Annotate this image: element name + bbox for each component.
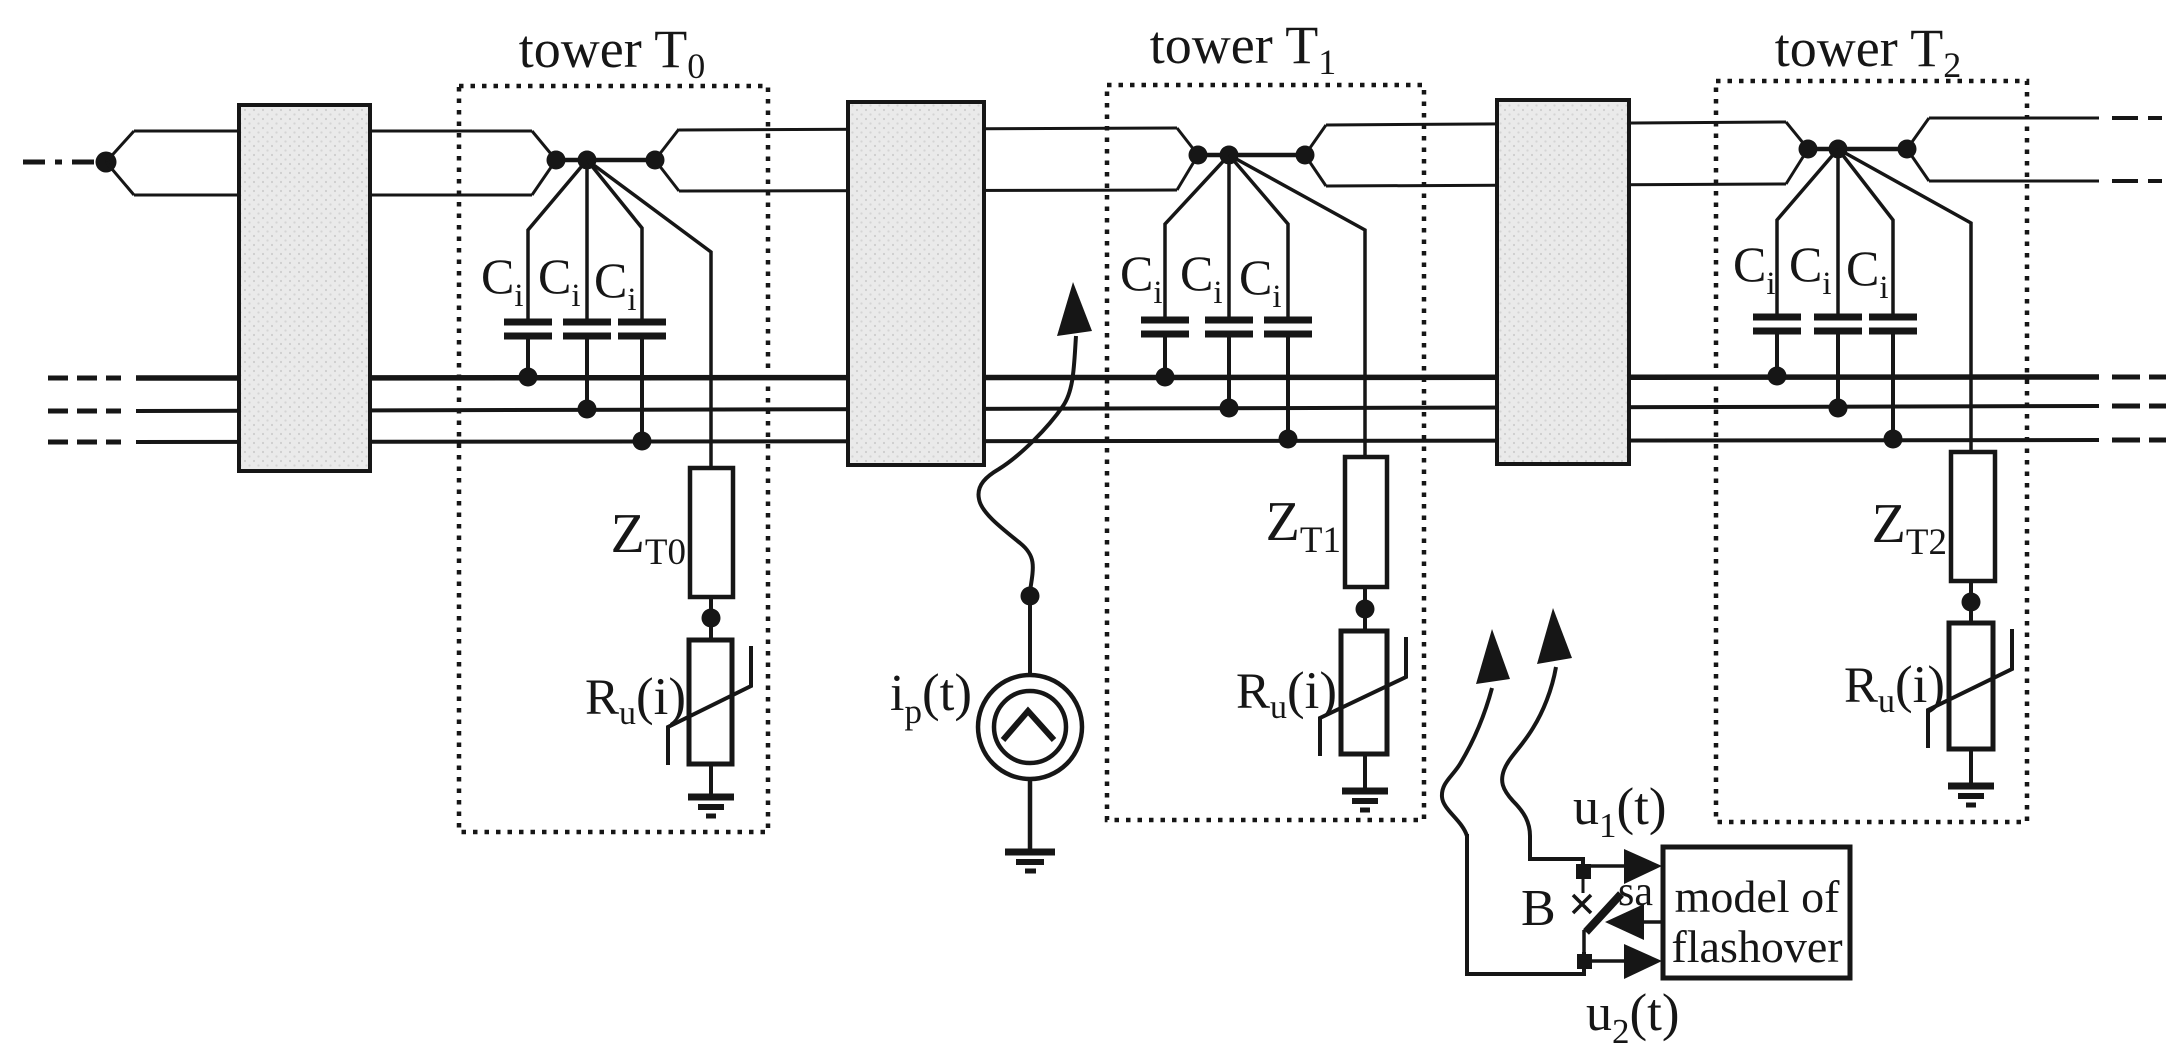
wire shield right dashed stub upper <box>2112 116 2162 120</box>
svg-text:u2(t): u2(t) <box>1586 984 1680 1051</box>
node lower sense junction <box>1577 954 1592 969</box>
capacitor C2 (Ci) of tower T1 <box>1205 155 1253 418</box>
node tower T2 base junction <box>1962 593 1981 612</box>
tower surge impedance Z_T1 <box>1345 457 1387 587</box>
wire tower T2 leg to surge impedance <box>1838 149 1971 452</box>
svg-text:flashover: flashover <box>1671 921 1842 972</box>
node tower T1 top junction <box>1220 146 1239 165</box>
tower surge impedance Z_T2 <box>1951 452 1995 581</box>
wavy arrow u2 (voltage at point B lower) <box>1502 667 1556 856</box>
line span block 1 (distributed line model) <box>239 105 370 471</box>
line span block 3 (distributed line model) <box>1497 100 1629 464</box>
wire junction to spark gap <box>1582 879 1585 893</box>
wire Z_T2 to footing resistance <box>1969 581 1973 623</box>
node tower T1 left junction <box>1189 146 1208 165</box>
tower T0 dotted boundary box <box>459 86 768 832</box>
wire phase conductor 2 <box>136 406 2099 411</box>
svg-text:sa: sa <box>1618 869 1653 915</box>
wire tower T1 leg to surge impedance <box>1229 155 1365 457</box>
line span block 2 (distributed line model) <box>848 102 984 465</box>
svg-text:ip(t): ip(t) <box>890 664 972 731</box>
model of flashover block <box>1663 847 1850 978</box>
switch sa blade <box>1586 894 1621 932</box>
wire tower T0 leg to surge impedance <box>587 160 711 468</box>
wire u1 sense lead (top run) <box>1530 854 1583 866</box>
node tower T2 right junction <box>1898 140 1917 159</box>
wire phase conductor 1 right dashes <box>2112 375 2166 380</box>
tower T1 top crossarm wire <box>1198 153 1305 158</box>
wire Z_T1 to footing resistance <box>1363 587 1367 631</box>
node tower T2 top junction <box>1829 140 1848 159</box>
wire phase conductor 3 right dashes <box>2112 438 2166 443</box>
wire phase conductor 2 right dashes <box>2112 404 2166 409</box>
ground tower T0 <box>688 764 734 816</box>
capacitor C3 (Ci) of tower T2 <box>1838 149 1917 449</box>
wire phase conductor 3 <box>136 440 2099 442</box>
capacitor C3 (Ci) of tower T1 <box>1229 155 1312 449</box>
node upper sense junction <box>1576 864 1591 879</box>
arrow control from flashover block to switch sa <box>1642 920 1663 924</box>
ground tower T1 <box>1342 754 1388 810</box>
wire shield-to-tower left diagonal <box>532 131 556 160</box>
wire u2 sense lead (left vertical + bottom run) <box>1467 834 1584 974</box>
svg-text:tower T2: tower T2 <box>1775 18 1961 85</box>
svg-text:B: B <box>1521 880 1556 937</box>
capacitor C1 (Ci) of tower T1 <box>1141 155 1229 387</box>
node tower T0 base junction <box>702 609 721 628</box>
nonlinear resistor R_u(i) footing resistance of tower T2 <box>1928 623 2012 749</box>
ground of current source <box>1005 849 1055 856</box>
node tower T1 base junction <box>1356 600 1375 619</box>
svg-text:Ru(i): Ru(i) <box>1236 662 1337 726</box>
ground tower T2 <box>1948 749 1994 805</box>
wire shield left dash-dot stub <box>23 160 97 165</box>
node tower T0 top junction <box>578 151 597 170</box>
capacitor C3 (Ci) of tower T0 <box>587 160 666 451</box>
svg-text:tower T0: tower T0 <box>519 19 705 86</box>
arrow u2 into flashover block <box>1584 959 1630 963</box>
capacitor C2 (Ci) of tower T0 <box>563 160 611 419</box>
node injection point <box>1021 587 1040 606</box>
wire shield ground-wire upper span <box>134 130 532 133</box>
node shield left junction <box>96 152 117 173</box>
tower T0 top crossarm wire <box>556 158 655 163</box>
svg-text:Ru(i): Ru(i) <box>1844 656 1945 720</box>
wire Z_T0 to footing resistance <box>709 597 713 640</box>
capacitor C1 (Ci) of tower T0 <box>504 160 587 387</box>
capacitor C1 (Ci) of tower T2 <box>1753 149 1838 386</box>
wire phase conductor 1 left dashes <box>48 376 121 381</box>
wire shield-to-tower left diagonal <box>1786 122 1808 149</box>
wire shield left fan-out <box>106 131 134 162</box>
node tower T0 right junction <box>646 151 665 170</box>
node tower T1 right junction <box>1296 146 1315 165</box>
wire shield-to-tower left diagonal <box>1177 128 1198 155</box>
wire shield right dashed stub lower <box>2112 179 2162 183</box>
node tower T2 left junction <box>1799 140 1818 159</box>
wire current source to injection node <box>1028 596 1032 676</box>
wire phase conductor 3 left dashes <box>48 440 121 445</box>
svg-text:u1(t): u1(t) <box>1573 778 1667 845</box>
wire blade to lower junction <box>1582 930 1586 961</box>
wire tower-to-shield right diagonal <box>655 129 679 160</box>
tower T2 top crossarm wire <box>1808 147 1907 152</box>
wire current source to ground <box>1028 779 1033 849</box>
arrow u1 into flashover block <box>1583 864 1630 868</box>
wire phase conductor 1 <box>136 377 2099 378</box>
svg-text:model of: model of <box>1675 871 1840 922</box>
current source i_p(t) <box>978 675 1082 779</box>
tower T1 dotted boundary box <box>1107 85 1424 820</box>
tower surge impedance Z_T0 <box>690 468 733 597</box>
capacitor C2 (Ci) of tower T2 <box>1814 149 1862 418</box>
wire phase conductor 2 left dashes <box>48 409 121 414</box>
wavy arrow u1 (voltage at point B upper) <box>1442 688 1492 836</box>
lightning channel wavy arrow <box>979 336 1076 591</box>
nonlinear resistor R_u(i) footing resistance of tower T0 <box>668 640 751 765</box>
tower T2 dotted boundary box <box>1716 81 2027 822</box>
wire shield ground-wire lower span <box>134 194 532 197</box>
nonlinear resistor R_u(i) footing resistance of tower T1 <box>1320 631 1406 756</box>
svg-text:Ru(i): Ru(i) <box>585 668 686 732</box>
spark gap breakdown point B (x marker) <box>1573 895 1591 913</box>
wire tower-to-shield right diagonal <box>1907 118 1929 149</box>
svg-text:tower T1: tower T1 <box>1150 15 1336 82</box>
wire tower-to-shield right diagonal <box>1305 125 1326 155</box>
node tower T0 left junction <box>547 151 566 170</box>
